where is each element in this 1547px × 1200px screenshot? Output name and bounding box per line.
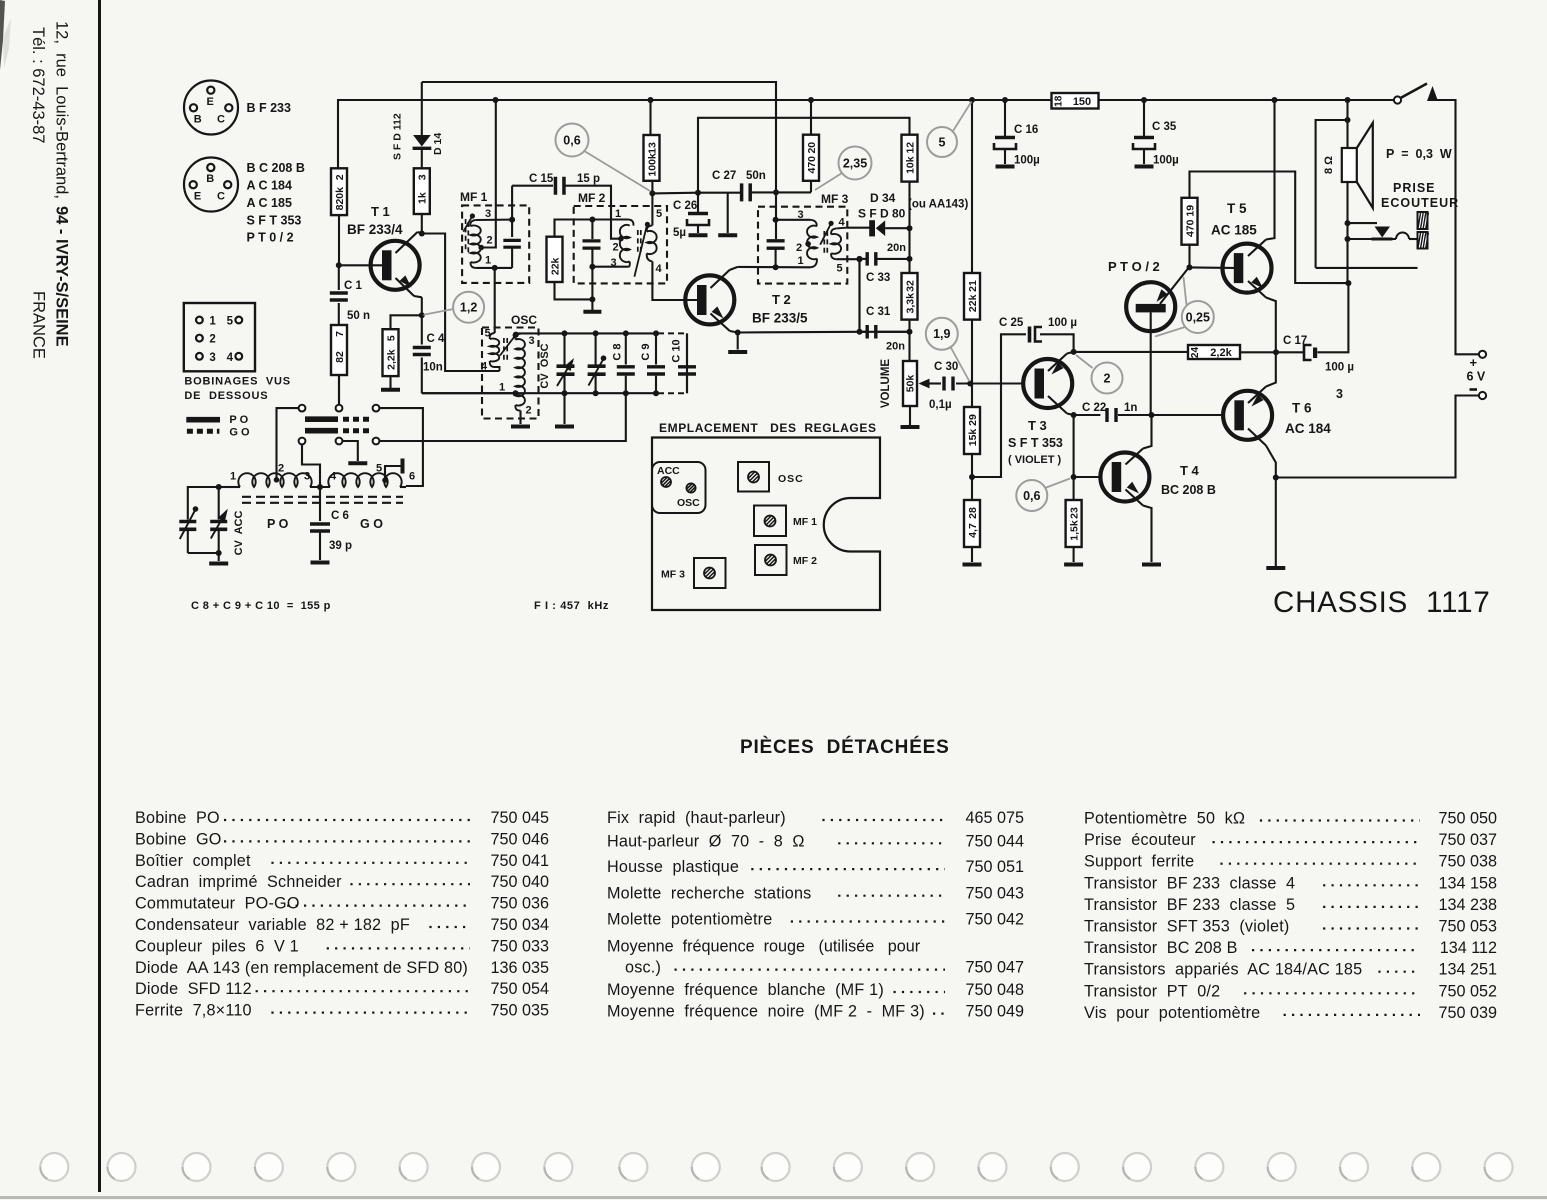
test point 1,9: [950, 346, 970, 382]
svg-text:C 17: C 17: [1283, 335, 1307, 347]
MF1 primary coil: [470, 220, 476, 227]
wire: tank bus to PO-GO switch: [380, 393, 626, 441]
transistor T4 BC 208 B: [1100, 453, 1149, 502]
svg-text:C 9: C 9: [640, 343, 652, 360]
svg-text:4,7: 4,7: [967, 523, 979, 538]
MF2 pin4 to T2 base: [652, 261, 701, 300]
svg-text:osc.): osc.): [625, 959, 661, 977]
svg-text:750 054: 750 054: [490, 980, 549, 998]
wire: top line from D14 to MF3-pin3 drop: [422, 82, 776, 192]
transistor PTO/2: [1126, 282, 1175, 331]
pot wiper arrow and C30 0,1u: [919, 379, 930, 389]
wire: top-right contact to GO pin6: [379, 408, 423, 486]
svg-text:32: 32: [904, 280, 916, 292]
svg-text:Haut-parleur Ø 70 - 8 Ω: Haut-parleur Ø 70 - 8 Ω: [607, 832, 805, 850]
svg-text:DE DESSOUS: DE DESSOUS: [184, 390, 268, 402]
MF1 slug arrow: [463, 217, 472, 232]
svg-text:Coupleur piles 6 V 1: Coupleur piles 6 V 1: [135, 937, 299, 955]
svg-text:2: 2: [1104, 371, 1111, 385]
svg-text:PRISE: PRISE: [1393, 181, 1436, 195]
wire: 470 top feedback loop: [1190, 172, 1349, 284]
OSC feedback winding (pins 5-4): [490, 333, 495, 339]
svg-text:Diode SFD 112: Diode SFD 112: [135, 980, 252, 998]
transformer MF1 (dashed box): [462, 205, 529, 283]
svg-text:Condensateur variable 82 + 1: Condensateur variable 82 + 182 pF: [135, 916, 410, 934]
legend GO dashed bar: [187, 429, 220, 434]
svg-text:MF 2: MF 2: [793, 555, 817, 567]
MF3 pin1 net to T2 collector: [738, 266, 810, 268]
diode D34 SFD80: [869, 220, 871, 236]
svg-text:C: C: [217, 191, 225, 203]
svg-text:5: 5: [385, 335, 397, 341]
svg-text:S F D 80: S F D 80: [858, 207, 906, 221]
svg-text:750 042: 750 042: [965, 911, 1024, 929]
MF1 pin2 tap: [478, 245, 484, 251]
MF2 pin2 tap: [618, 236, 624, 242]
resistor 22k (MF2 damping): [547, 237, 563, 282]
capacitor C26 5u (electrolytic): [697, 193, 699, 212]
wire: 2,2k line: [1074, 351, 1188, 353]
capacitor C33 20n: [860, 258, 867, 260]
trimmer capacitors CV ACC: [188, 487, 219, 520]
svg-text:BF 233/5: BF 233/5: [752, 311, 808, 326]
svg-text:OSC: OSC: [778, 473, 804, 485]
svg-text:750 035: 750 035: [490, 1002, 549, 1020]
svg-text:465 075: 465 075: [965, 809, 1024, 827]
panel ACC trimmer zone: [652, 462, 706, 513]
svg-text:C 8: C 8: [612, 343, 624, 360]
svg-text:1,5k: 1,5k: [1068, 520, 1080, 541]
wire: T1 collector node: [418, 232, 422, 234]
resistor 10k (pin 12): [902, 135, 918, 182]
wire: T3 collector node: [1071, 349, 1077, 355]
resistor 820k (pin 2): [331, 168, 347, 215]
wire: MF2 pin3/22k to ground: [591, 267, 593, 310]
panel MF1 trimmer: [754, 506, 786, 537]
svg-text:S F D 112: S F D 112: [392, 113, 404, 160]
transistor T1 BF 233/4: [371, 241, 420, 290]
svg-text:2: 2: [209, 334, 215, 346]
svg-text:7: 7: [334, 331, 346, 337]
svg-text:750 047: 750 047: [965, 959, 1024, 977]
svg-text:22k: 22k: [967, 294, 979, 312]
svg-text:1,9: 1,9: [933, 327, 950, 341]
OSC slug arrow: [500, 337, 515, 356]
svg-text:A C 184: A C 184: [247, 179, 292, 193]
svg-text:+: +: [1470, 355, 1478, 370]
svg-text:10n: 10n: [423, 362, 443, 374]
svg-text:1: 1: [797, 255, 803, 267]
wire: C33/C31 left link: [858, 259, 860, 332]
wire: T3 emitter node / C22 line: [1071, 412, 1077, 418]
capacitor C31 20n: [860, 331, 867, 333]
capacitor C1 50n: [338, 265, 340, 290]
wire: AGC node: [652, 192, 698, 195]
transistor T2 BF 233/5: [685, 275, 734, 324]
svg-text:Transistor PT 0/2: Transistor PT 0/2: [1084, 982, 1220, 1000]
svg-text:5: 5: [376, 463, 382, 475]
wire: T3 emitter to 1,5k and T4 base: [1073, 415, 1075, 500]
svg-text:6 V: 6 V: [1467, 370, 1486, 384]
svg-text:Potentiomètre 50 kΩ: Potentiomètre 50 kΩ: [1084, 810, 1245, 828]
svg-text:Molette recherche stations: Molette recherche stations: [607, 885, 811, 903]
CV bottom bus: [422, 392, 658, 394]
svg-text:24: 24: [1190, 347, 1201, 359]
svg-text:T 2: T 2: [772, 292, 791, 307]
svg-text:Prise écouteur: Prise écouteur: [1084, 831, 1196, 849]
svg-text:2: 2: [486, 235, 492, 247]
loudspeaker frame wires: [1316, 120, 1348, 268]
MF3 secondary coil: [831, 228, 836, 234]
svg-text:94 - IVRY-S/SEINE: 94 - IVRY-S/SEINE: [53, 206, 71, 347]
MF2 pin3 net: [592, 266, 628, 268]
svg-text:19: 19: [1184, 205, 1196, 217]
svg-text:1n: 1n: [1124, 402, 1137, 414]
svg-text:Transistor BF 233 classe 5: Transistor BF 233 classe 5: [1084, 896, 1295, 914]
svg-text:5: 5: [656, 208, 662, 220]
svg-text:12, rue Louis-Bertrand,: 12, rue Louis-Bertrand,: [53, 21, 71, 204]
svg-text:C 33: C 33: [866, 272, 890, 284]
svg-text:1: 1: [209, 316, 216, 328]
svg-text:15k: 15k: [967, 429, 979, 447]
wire: top-left contact to PO tap2: [277, 408, 299, 479]
svg-text:750 044: 750 044: [965, 832, 1024, 850]
svg-text:D 34: D 34: [870, 191, 896, 205]
svg-text:Housse plastique: Housse plastique: [607, 858, 739, 876]
svg-text:750 036: 750 036: [490, 895, 549, 913]
PO tap 2: [274, 477, 280, 483]
svg-text:F I : 457 kHz: F I : 457 kHz: [534, 600, 609, 612]
svg-text:2: 2: [525, 405, 531, 417]
svg-text:Diode AA 143 (en remplacement: Diode AA 143 (en remplacement de SFD 80): [135, 959, 468, 977]
OSC tank winding (pins 3-1-2): [515, 333, 521, 339]
svg-text:MF 1: MF 1: [793, 516, 817, 528]
svg-text:2,35: 2,35: [843, 156, 867, 170]
svg-text:B F 233: B F 233: [247, 101, 292, 115]
capacitor C6 39p: [319, 487, 321, 521]
wire: top-middle contact to resistor 82: [338, 375, 340, 405]
svg-text:100µ: 100µ: [1153, 155, 1179, 167]
svg-text:Vis pour potentiomètre: Vis pour potentiomètre: [1084, 1004, 1260, 1022]
svg-text:ACC: ACC: [657, 465, 680, 477]
svg-text:20n: 20n: [886, 341, 905, 353]
wire: 22k top to MF2 pin1: [555, 220, 629, 237]
switch PO bars: [305, 416, 338, 422]
MF3 pin3 riser: [775, 192, 777, 239]
svg-text:2,2k: 2,2k: [1210, 347, 1232, 359]
svg-text:3: 3: [1336, 387, 1343, 401]
MF2 secondary coil: [647, 225, 653, 231]
svg-text:28: 28: [967, 507, 979, 519]
svg-text:C 31: C 31: [866, 306, 891, 318]
svg-text:Tél. : 672-43-87: Tél. : 672-43-87: [29, 27, 47, 143]
svg-text:3,3k: 3,3k: [904, 293, 916, 314]
wire: 820k to T1 base: [338, 215, 340, 265]
MF1 pin1 net: [511, 247, 513, 268]
svg-text:470: 470: [806, 156, 818, 174]
MF3 internal capacitor: [767, 241, 785, 248]
svg-text:D 14: D 14: [432, 133, 444, 155]
page margin rule (vertical scan line): [98, 0, 101, 1192]
svg-text:1: 1: [615, 208, 621, 220]
svg-text:Moyenne fréquence noire (MF: Moyenne fréquence noire (MF 2 - MF 3): [607, 1003, 925, 1021]
svg-text:( VIOLET ): ( VIOLET ): [1008, 454, 1062, 466]
svg-text:82: 82: [334, 351, 346, 363]
svg-text:CV OSC: CV OSC: [539, 343, 551, 388]
svg-text:50 n: 50 n: [347, 310, 370, 322]
svg-text:750 041: 750 041: [490, 852, 549, 870]
svg-text:5µ: 5µ: [673, 227, 686, 239]
transistor T5 AC 185: [1223, 244, 1272, 293]
wire: C4 to oscillator tank bus: [422, 392, 515, 394]
wire: 3,3k to volume pot: [908, 320, 910, 361]
svg-text:C 10: C 10: [671, 339, 683, 362]
panel MF2 trimmer: [755, 545, 787, 575]
MF2 core: [637, 230, 639, 253]
svg-text:BOBINAGES VUS: BOBINAGES VUS: [184, 375, 291, 387]
svg-text:10k: 10k: [904, 156, 916, 174]
antenna coil junction dot: [317, 484, 323, 490]
svg-text:(ou AA143): (ou AA143): [908, 199, 968, 211]
svg-text:750 040: 750 040: [490, 873, 549, 891]
MF3 pin4 wire: [836, 227, 846, 230]
svg-text:750 051: 750 051: [965, 858, 1024, 876]
wire: AGC link line: [698, 118, 910, 192]
svg-text:C 4: C 4: [427, 333, 446, 345]
svg-text:5: 5: [836, 263, 842, 275]
svg-text:3: 3: [528, 335, 534, 347]
svg-text:3: 3: [610, 257, 616, 269]
binder perforation holes: [40, 1153, 68, 1181]
svg-text:Transistor BC 208 B: Transistor BC 208 B: [1084, 939, 1238, 957]
svg-text:Commutateur PO-GO: Commutateur PO-GO: [135, 895, 300, 913]
switch contacts top row: [299, 405, 306, 412]
legend PO bar: [186, 417, 220, 423]
svg-text:T 1: T 1: [371, 204, 390, 219]
wire: main +bus: [338, 100, 1052, 168]
svg-text:5: 5: [484, 328, 490, 340]
svg-text:29: 29: [967, 414, 979, 426]
svg-text:134 112: 134 112: [1440, 939, 1497, 957]
svg-text:4: 4: [481, 361, 488, 373]
svg-text:1,2: 1,2: [460, 301, 477, 315]
test point 0,25: [1184, 277, 1187, 305]
potentiometer VOLUME 50k: [903, 361, 917, 406]
svg-text:2,2k: 2,2k: [385, 349, 397, 370]
svg-text:750 034: 750 034: [490, 916, 549, 934]
svg-text:P O: P O: [267, 517, 289, 531]
svg-text:1: 1: [230, 471, 236, 483]
switch contacts bottom row: [299, 438, 306, 445]
capacitor C27 50n: [742, 183, 751, 201]
MF2 internal capacitor: [591, 220, 593, 240]
bobbin pin diagram box: [184, 303, 255, 371]
CV top bus: [517, 332, 659, 334]
svg-text:EMPLACEMENT DES REGLAGES: EMPLACEMENT DES REGLAGES: [659, 421, 877, 435]
svg-text:Fix rapid (haut-parleur): Fix rapid (haut-parleur): [607, 809, 786, 827]
svg-text:C 22: C 22: [1082, 402, 1106, 414]
capacitor C4 10n: [421, 315, 423, 344]
svg-text:G O: G O: [360, 517, 383, 531]
svg-text:C 27: C 27: [712, 170, 736, 182]
svg-text:750 046: 750 046: [490, 830, 549, 848]
wire: detector node column: [908, 182, 910, 273]
transistor T6 AC 184: [1223, 391, 1272, 440]
svg-text:Boîtier complet: Boîtier complet: [135, 852, 251, 870]
oscillator trimmer capacitor: [595, 333, 597, 364]
resistor 4,7 (pin 28): [971, 454, 973, 500]
svg-text:C 15: C 15: [529, 173, 554, 185]
MF3 primary coil: [807, 226, 817, 260]
MF3 pin2 tap: [805, 241, 811, 247]
svg-text:1: 1: [499, 382, 505, 394]
svg-text:Moyenne fréquence rouge (u: Moyenne fréquence rouge (utilisée pour: [607, 938, 921, 956]
svg-text:5: 5: [227, 316, 234, 328]
battery - terminal: [1470, 388, 1478, 391]
battery + terminal: [1479, 351, 1486, 358]
wire: 2,2k to C17 node: [1240, 351, 1303, 353]
svg-text:BC 208 B: BC 208 B: [1161, 483, 1216, 497]
wire: pin1 to CV ACC: [219, 486, 232, 488]
svg-text:P T 0 / 2: P T 0 / 2: [247, 231, 294, 245]
wire: C27 right to MF3 pin3 node: [750, 191, 811, 193]
wire: T1 emitter node: [421, 297, 423, 315]
capacitor C17 100u: [1304, 345, 1312, 360]
svg-text:750 050: 750 050: [1438, 810, 1497, 828]
junction dots on bus: [493, 97, 499, 103]
jack socket (hatched): [1418, 212, 1428, 229]
MF1 internal capacitor: [503, 240, 520, 247]
svg-text:3: 3: [417, 174, 429, 180]
ground stem near C27: [727, 193, 729, 233]
svg-text:0,6: 0,6: [563, 133, 580, 147]
test point 0,6 (T4 base): [1045, 479, 1070, 489]
svg-text:ECOUTEUR: ECOUTEUR: [1381, 196, 1459, 210]
svg-text:12: 12: [904, 142, 916, 154]
svg-text:CHASSIS 1117: CHASSIS 1117: [1273, 586, 1491, 619]
adjustment panel outline: [652, 438, 880, 611]
svg-text:750 037: 750 037: [1438, 831, 1497, 849]
svg-text:Transistor BF 233 classe 4: Transistor BF 233 classe 4: [1084, 874, 1295, 892]
OSC core: [503, 338, 505, 362]
svg-text:20: 20: [806, 142, 818, 154]
svg-text:470: 470: [1184, 219, 1196, 237]
svg-text:2: 2: [612, 242, 618, 254]
svg-text:750 053: 750 053: [1438, 918, 1497, 936]
resistor 1,5k (pin 23): [1066, 500, 1082, 547]
svg-text:P = 0,3 W: P = 0,3 W: [1386, 147, 1452, 161]
svg-text:C 35: C 35: [1152, 121, 1177, 133]
MF1 pin3 net: [476, 219, 512, 221]
svg-text:T 3: T 3: [1028, 418, 1047, 433]
svg-text:100 µ: 100 µ: [1048, 317, 1077, 329]
bottom page edge shadow: [0, 1196, 1547, 1199]
svg-text:100µ: 100µ: [1014, 155, 1040, 167]
wire: T2 emitter node: [735, 330, 741, 336]
svg-text:Cadran imprimé Schneider: Cadran imprimé Schneider: [135, 873, 342, 891]
resistor 82 (pin 7): [331, 325, 347, 375]
wire: collector to OSC pin4: [422, 234, 500, 372]
capacitor C16 100u: [1004, 100, 1006, 136]
wire: OSC pin3 to CV bus: [521, 332, 523, 334]
test point 0,6 (MF2): [584, 151, 651, 192]
svg-text:Molette potentiomètre: Molette potentiomètre: [607, 911, 772, 929]
diode D14 SFD112: [421, 82, 423, 135]
GO winding (pins 4-5-6): [328, 473, 401, 487]
svg-text:8 Ω: 8 Ω: [1323, 156, 1335, 174]
transformer MF3 (dashed box): [758, 207, 847, 284]
svg-text:G O: G O: [229, 427, 250, 439]
resistor 150 (pin 18): [1052, 93, 1099, 109]
svg-text:20n: 20n: [887, 242, 906, 254]
svg-text:Ferrite 7,8×110: Ferrite 7,8×110: [135, 1002, 252, 1020]
svg-text:C: C: [217, 114, 225, 126]
MF3 pin3 horizontal: [776, 219, 810, 221]
svg-text:C 8 + C 9 + C 10 = 155 p: C 8 + C 9 + C 10 = 155 p: [191, 600, 331, 612]
svg-text:C 16: C 16: [1014, 124, 1038, 136]
ground under T2 emitter: [737, 333, 739, 350]
svg-text:750 048: 750 048: [965, 981, 1024, 999]
svg-text:50n: 50n: [746, 170, 766, 182]
wire: pot bottom to ground: [909, 406, 911, 425]
svg-text:15 p: 15 p: [577, 173, 600, 185]
resistor 3,3k (pin 32): [902, 273, 918, 320]
svg-text:820k: 820k: [334, 187, 346, 211]
ground under 2,2k: [389, 376, 391, 388]
svg-text:134 238: 134 238: [1438, 896, 1497, 914]
svg-text:1k: 1k: [417, 192, 429, 204]
resistor 470 (pin 20): [803, 135, 819, 181]
oscillator coil box OSC (dashed): [482, 328, 539, 419]
svg-text:MF 1: MF 1: [460, 190, 488, 204]
svg-text:C 1: C 1: [344, 280, 363, 292]
resistor 15k (pin 29): [971, 384, 973, 408]
svg-text:750 039: 750 039: [1438, 1004, 1497, 1022]
svg-text:4: 4: [227, 352, 234, 364]
capacitor C25 100u loop: [972, 334, 1026, 477]
svg-text:13: 13: [646, 142, 658, 154]
svg-text:AC 184: AC 184: [1285, 421, 1331, 436]
svg-text:4: 4: [655, 263, 662, 275]
svg-text:3: 3: [209, 352, 215, 364]
GO tap 5 antenna stub: [382, 477, 388, 483]
svg-text:T 6: T 6: [1292, 401, 1312, 416]
svg-text:100 µ: 100 µ: [1325, 362, 1354, 374]
svg-text:4: 4: [838, 217, 845, 229]
capacitor C22 1n: [1107, 408, 1116, 422]
svg-text:S F T 353: S F T 353: [247, 214, 302, 228]
svg-text:18: 18: [1054, 95, 1065, 107]
svg-text:136 035: 136 035: [490, 959, 549, 977]
on-off switch: [1394, 96, 1401, 103]
MF3 slug arrow: [820, 225, 830, 245]
pinout circle BF 233: [184, 81, 238, 135]
wire: emitter to 2,2k: [391, 315, 422, 329]
MF3 core: [823, 231, 825, 254]
svg-text:39 p: 39 p: [329, 540, 352, 552]
capacitor C9: [655, 333, 657, 364]
svg-text:150: 150: [1073, 96, 1091, 108]
transformer MF2 (dashed box): [574, 206, 667, 283]
wire: pin5 down to T2 emitter line: [858, 259, 860, 332]
svg-text:OSC: OSC: [511, 313, 537, 327]
pinout circle BC208B/AC184/AC185/SFT353/PT0-2: [184, 158, 238, 212]
svg-text:1: 1: [485, 255, 491, 267]
svg-text:MF 3: MF 3: [821, 192, 849, 206]
wire: OSC pin2 to ground: [519, 411, 521, 425]
svg-text:C 30: C 30: [934, 361, 958, 373]
svg-text:0,1µ: 0,1µ: [929, 399, 952, 411]
